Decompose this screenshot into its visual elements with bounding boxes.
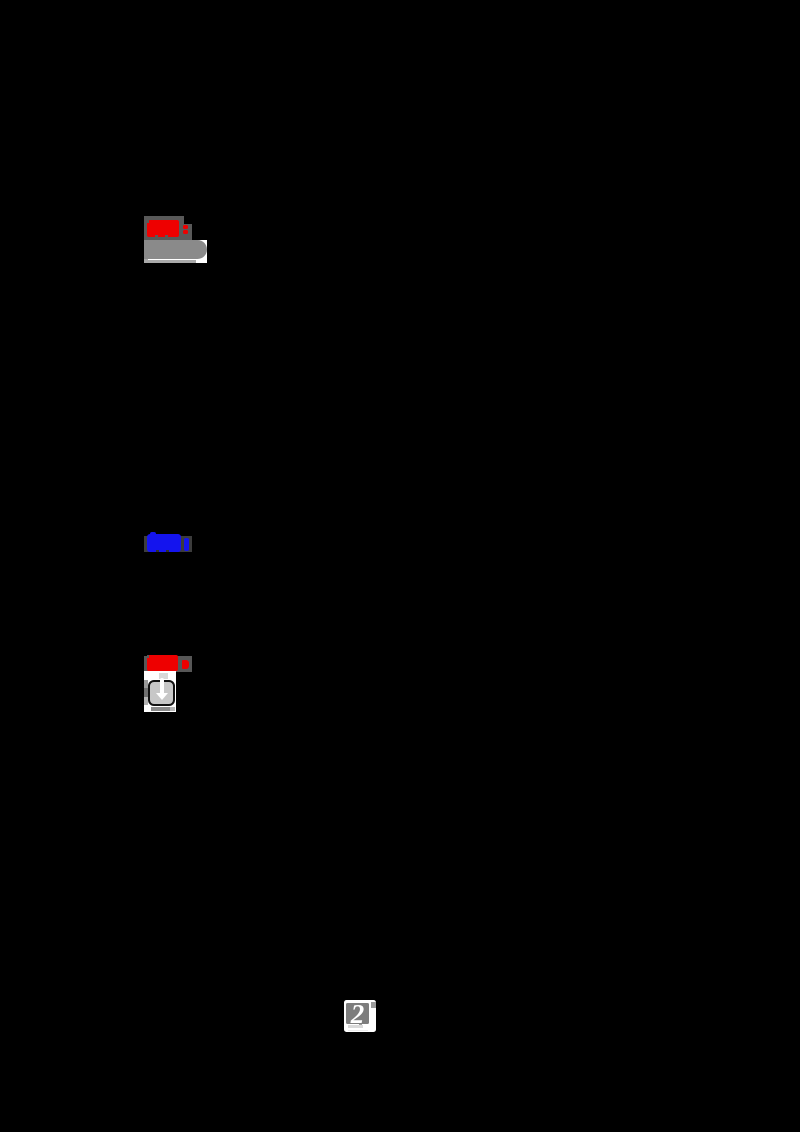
gray notch top-right of TV icon (371, 1002, 376, 1008)
glyph gap notches bottom of top red label (155, 235, 158, 237)
white backing panel behind down-arrow keycap (144, 671, 176, 712)
blue label text blob (147, 534, 181, 552)
gray pill key body (144, 240, 207, 259)
red label text blob (lower) (147, 655, 179, 671)
red small glyph right of lower label (182, 660, 188, 669)
TV screen gray square (346, 1003, 369, 1024)
white backing behind right cap of gray pill key (196, 240, 207, 263)
gray artifact block left of keycap lower (144, 697, 148, 705)
gray highlight patch behind top red label (144, 216, 184, 240)
white separation line under pill body (148, 259, 197, 260)
TV neck (359, 1024, 363, 1026)
light gray artifact above keycap (159, 673, 167, 680)
gray patch behind lower red label (144, 656, 192, 672)
notch top-left of top red label (147, 220, 150, 223)
light gray lower side of pill key (144, 256, 197, 264)
white rounded backing of page-number TV icon (344, 1000, 376, 1033)
gray strip below keycap (151, 707, 170, 711)
down-arrow keycap outline and body (148, 680, 175, 706)
glyph gap notches bottom of blue label (156, 550, 158, 552)
faint bottom line of TV icon (348, 1030, 369, 1031)
lighter left notch of pill lower side (144, 256, 148, 264)
red label text blob (top) (147, 220, 179, 237)
gray patch extension right of top red label (184, 224, 192, 240)
blue small character right of blue label (184, 538, 189, 551)
white arrow stem (160, 678, 163, 693)
white italic numeral 2 on screen (346, 1001, 369, 1028)
faint dark patch behind blue label (144, 536, 192, 552)
notch top-left of lower red label (147, 655, 149, 658)
gray artifact block left of keycap upper (144, 680, 148, 688)
red colon marks right of top label (183, 225, 188, 229)
lighter gray strip below keycap right part (170, 707, 175, 711)
TV stand (348, 1025, 364, 1028)
white arrow head (156, 693, 168, 700)
gray artifact block left of keycap middle (144, 688, 148, 698)
blue ascender bump (150, 532, 156, 537)
